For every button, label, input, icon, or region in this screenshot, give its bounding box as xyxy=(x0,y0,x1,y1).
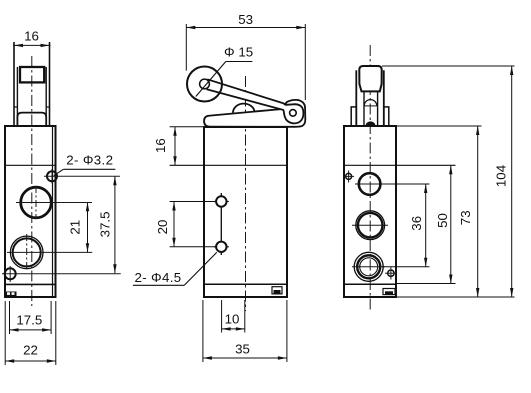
svg-text:53: 53 xyxy=(238,12,253,27)
svg-text:21: 21 xyxy=(68,220,83,235)
svg-text:16: 16 xyxy=(24,29,39,44)
svg-text:104: 104 xyxy=(494,165,509,187)
svg-text:22: 22 xyxy=(23,343,38,358)
svg-text:35: 35 xyxy=(235,342,250,357)
svg-text:73: 73 xyxy=(458,210,473,225)
svg-text:50: 50 xyxy=(435,213,450,228)
svg-text:20: 20 xyxy=(155,220,170,235)
svg-text:17.5: 17.5 xyxy=(16,313,42,328)
svg-text:10: 10 xyxy=(225,312,240,327)
svg-text:2- Φ4.5: 2- Φ4.5 xyxy=(134,270,181,285)
svg-text:Φ 15: Φ 15 xyxy=(224,45,253,60)
svg-text:16: 16 xyxy=(153,138,168,153)
svg-text:2- Φ3.2: 2- Φ3.2 xyxy=(66,153,113,168)
svg-text:36: 36 xyxy=(409,216,424,231)
svg-text:37.5: 37.5 xyxy=(98,211,113,237)
